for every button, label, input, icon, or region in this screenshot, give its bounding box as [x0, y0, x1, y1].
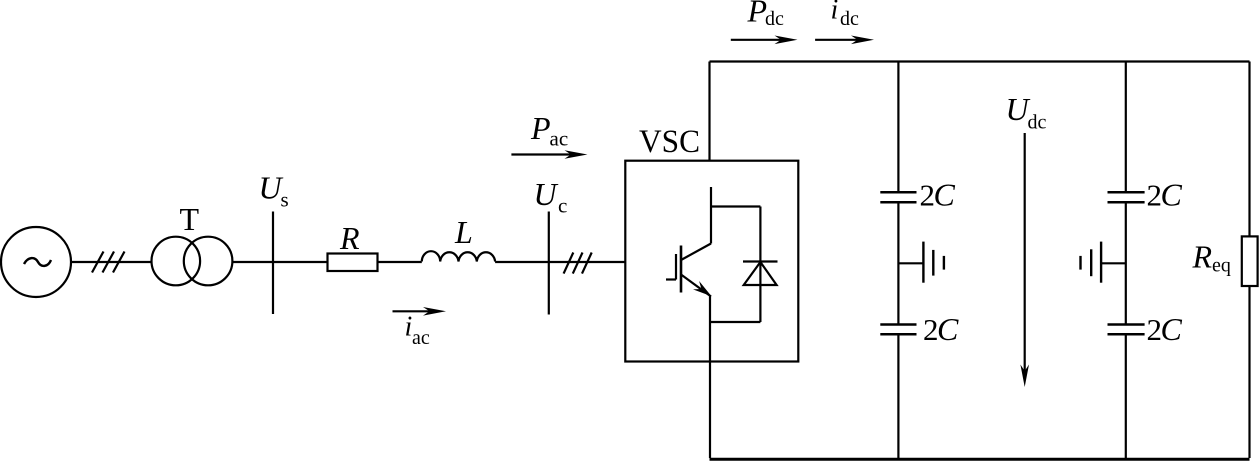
- wire top DC rail: [710, 60, 1250, 62]
- svg-text:R: R: [339, 220, 360, 256]
- three-phase slashes (left): [92, 252, 125, 273]
- resistor Req: [1242, 236, 1258, 286]
- label Pdc: [747, 0, 785, 30]
- svg-text:ac: ac: [550, 127, 569, 151]
- capacitor C1: [880, 192, 916, 202]
- arrow Pdc: [731, 36, 798, 45]
- IGBT Q1: [666, 187, 712, 297]
- label 2C (C1): [920, 177, 956, 213]
- svg-text:C: C: [1161, 311, 1183, 347]
- svg-text:C: C: [937, 311, 959, 347]
- svg-text:T: T: [180, 201, 200, 237]
- svg-text:eq: eq: [1212, 255, 1231, 277]
- label idc: [831, 0, 860, 30]
- label iac: [405, 312, 430, 350]
- wire R to L: [378, 261, 422, 263]
- inductor L1: [422, 251, 495, 261]
- three-phase slashes (right): [564, 253, 592, 274]
- arrow idc: [815, 36, 874, 45]
- svg-text:s: s: [281, 187, 289, 211]
- svg-text:dc: dc: [840, 8, 859, 30]
- capacitor C3: [1108, 192, 1145, 202]
- svg-text:P: P: [530, 110, 551, 146]
- diode D1: [743, 207, 778, 323]
- wire top DC lead: [708, 62, 710, 161]
- ground (branch 2): [1081, 242, 1126, 283]
- capacitor C2: [880, 325, 916, 335]
- capacitor C4: [1108, 325, 1145, 335]
- wire capacitor branch 1 bottom: [897, 335, 899, 458]
- svg-text:L: L: [454, 214, 473, 250]
- svg-text:VSC: VSC: [639, 124, 700, 160]
- wire Req branch top: [1248, 62, 1250, 237]
- VSC box U1: [625, 161, 798, 362]
- label Req: [1192, 239, 1231, 277]
- svg-text:dc: dc: [765, 8, 784, 30]
- svg-text:P: P: [747, 0, 768, 29]
- wire capacitor branch 1 top: [897, 62, 899, 192]
- bus node Us: [272, 212, 274, 315]
- svg-text:c: c: [558, 194, 567, 218]
- bus node Uc: [548, 212, 550, 315]
- wire source to slashes: [71, 261, 152, 263]
- wire emitter down to bottom rail: [709, 297, 711, 459]
- wire bottom DC rail: [710, 458, 1250, 461]
- wire capacitor branch 2 middle: [1125, 203, 1127, 323]
- svg-text:U: U: [534, 176, 559, 212]
- wire capacitor branch 2 bottom: [1125, 335, 1127, 458]
- label 2C (C2): [923, 311, 959, 347]
- svg-text:C: C: [1161, 177, 1183, 213]
- wire capacitor branch 2 top: [1125, 62, 1127, 192]
- label 2C (C4): [1147, 311, 1183, 347]
- arrow Pac: [511, 150, 587, 159]
- wire transformer to R: [232, 261, 327, 263]
- svg-text:i: i: [831, 0, 839, 25]
- ground (branch 1): [898, 242, 944, 283]
- wire diode bottom jog: [711, 321, 760, 323]
- AC source G1: [1, 227, 71, 297]
- wire collector jog to diode: [711, 205, 760, 207]
- svg-text:dc: dc: [1028, 111, 1047, 133]
- svg-text:C: C: [934, 177, 956, 213]
- resistor R1: [328, 254, 378, 272]
- transformer T: [152, 237, 233, 286]
- label Pac: [530, 110, 568, 151]
- label Udc: [1006, 91, 1047, 133]
- svg-text:ac: ac: [412, 327, 430, 349]
- label 2C (C3): [1147, 177, 1183, 213]
- wire capacitor branch 1 middle: [897, 203, 899, 323]
- arrow iac: [393, 307, 447, 316]
- label Uc: [534, 176, 568, 217]
- arrow Udc: [1020, 133, 1029, 387]
- wire Req branch bottom: [1248, 286, 1250, 458]
- svg-text:R: R: [1192, 239, 1213, 275]
- wire L to VSC: [495, 261, 625, 263]
